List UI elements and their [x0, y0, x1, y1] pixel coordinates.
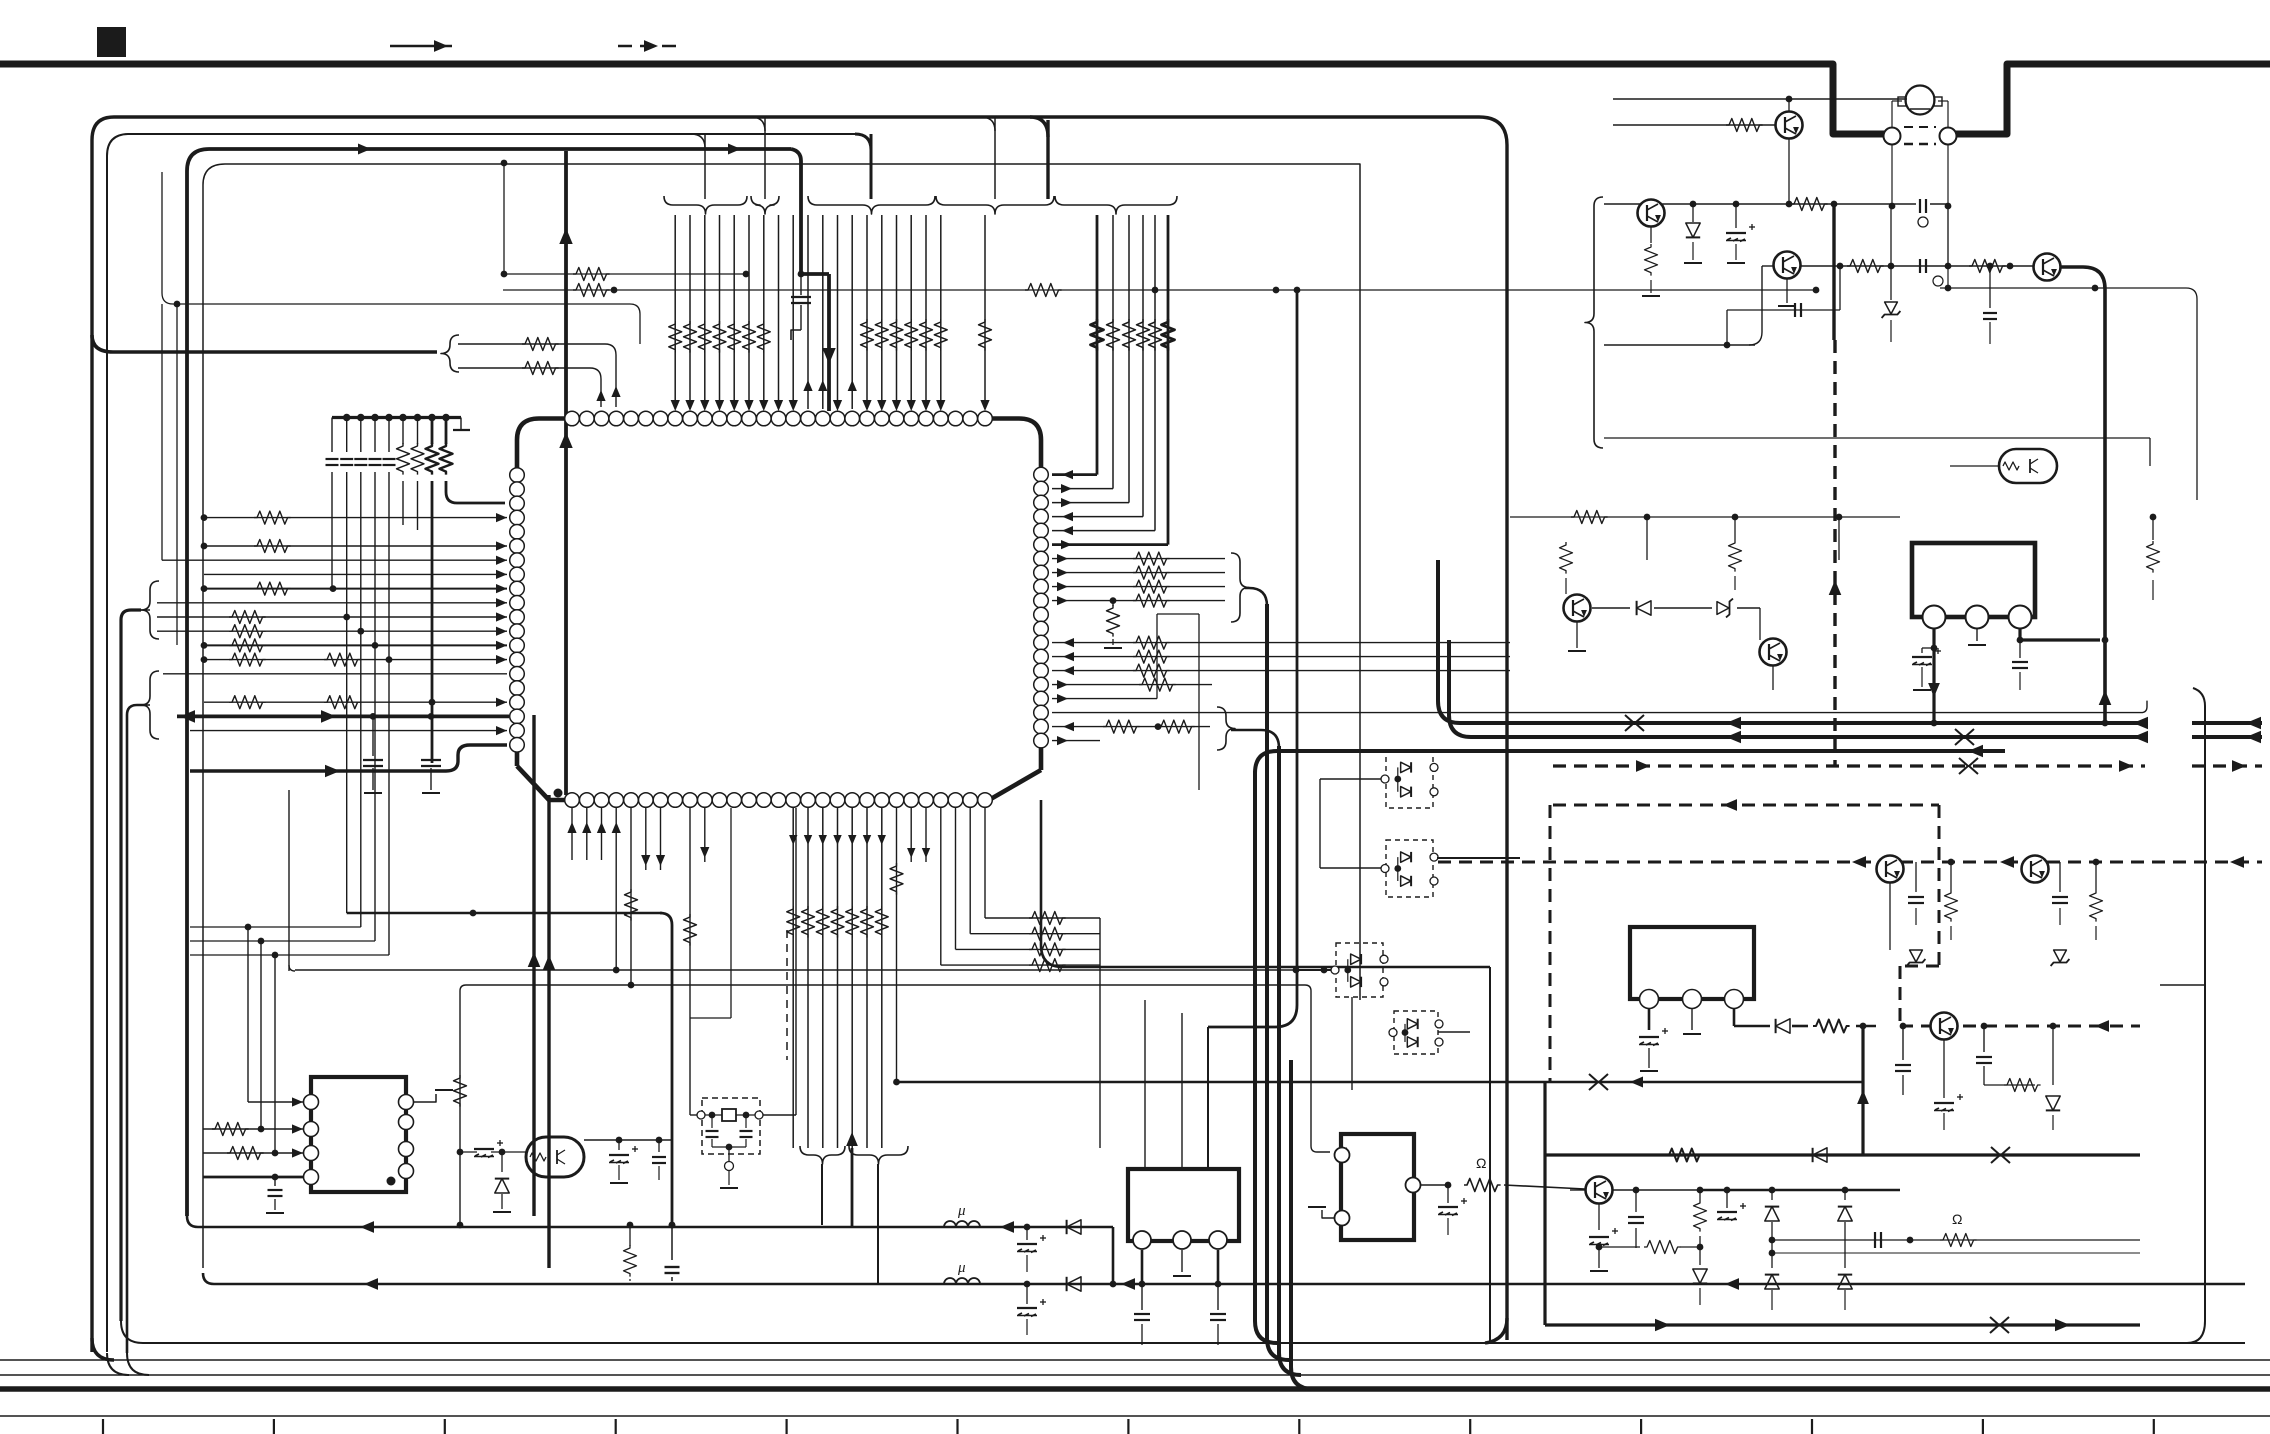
svg-text:μ: μ: [957, 1203, 966, 1219]
svg-text:Ω: Ω: [1952, 1211, 1962, 1227]
svg-text:Ω: Ω: [1476, 1155, 1486, 1171]
svg-text:μ: μ: [957, 1260, 966, 1276]
